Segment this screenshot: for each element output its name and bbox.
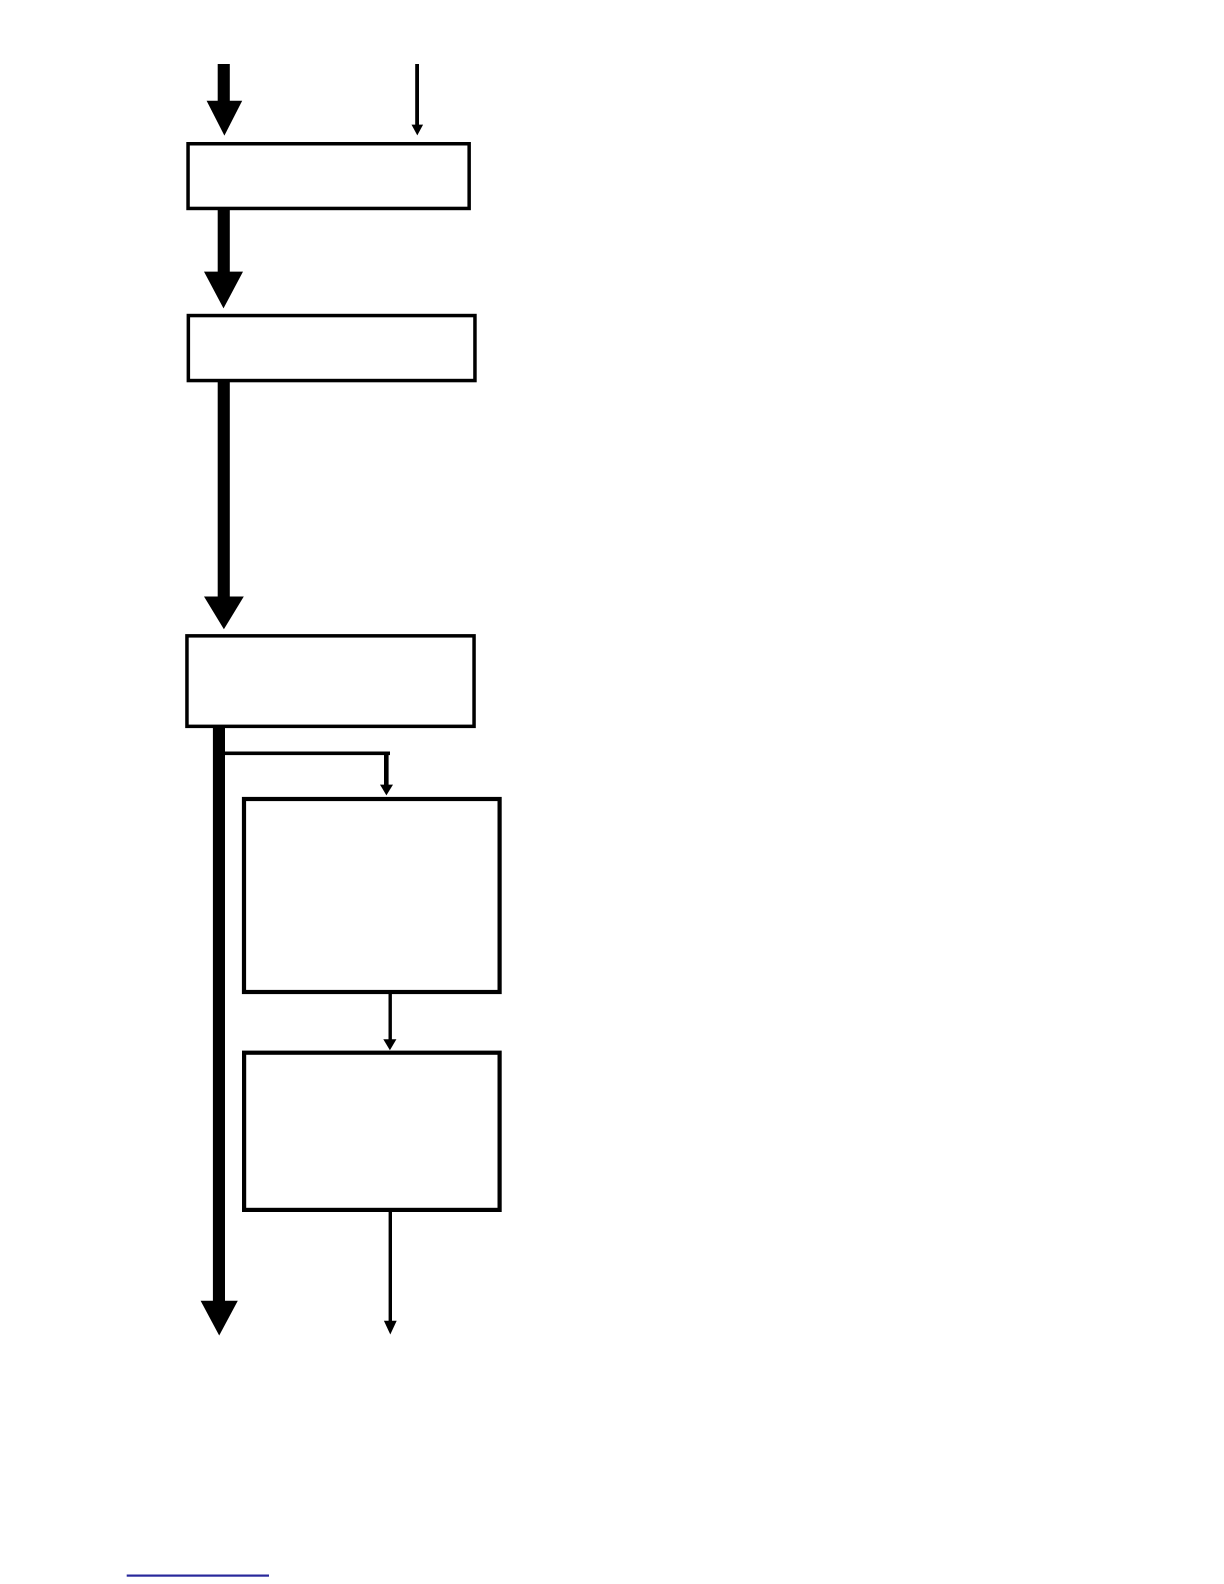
arrowhead into box 4 [380, 785, 393, 796]
box 3 [187, 636, 474, 727]
box 5 [244, 1053, 500, 1210]
thick arrow 1 (into box 1) [207, 64, 243, 136]
thick vertical line (box 3 down the page) [213, 726, 225, 1303]
box 4 [244, 799, 500, 992]
blue hyperlink underline (bottom left) [127, 1575, 269, 1577]
box 2 [188, 316, 475, 381]
wire: branch vertical drop into box 4 [384, 752, 389, 786]
thin arrow (top right, into box 1) [412, 64, 424, 135]
wire: branch horizontal from thick line [219, 752, 390, 756]
thin arrow (box 4 to box 5) [383, 992, 396, 1050]
box 1 [188, 144, 469, 209]
thick arrowhead (bottom of long line) [201, 1301, 238, 1336]
thick arrow 3 (box 2 to box 3) [204, 380, 244, 629]
thin arrow (below box 5) [384, 1210, 397, 1335]
thick arrow 2 (box 1 to box 2) [204, 210, 243, 308]
